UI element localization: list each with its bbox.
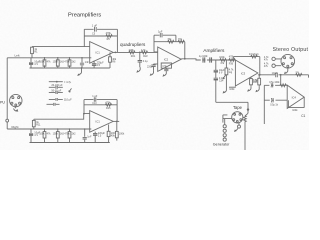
svg-text:0.5µ: 0.5µ (162, 66, 167, 68)
wire IC3 output (258, 74, 309, 76)
svg-text:R35: R35 (253, 82, 258, 84)
capacitor C22 1uF (158, 30, 163, 38)
capacitor C1 electrolytic (29, 58, 41, 68)
resistor R12 (39, 128, 51, 142)
svg-text:IC3: IC3 (241, 71, 246, 75)
J1 cable arrow (14, 109, 18, 112)
jack output R (272, 64, 275, 67)
svg-text:Generator: Generator (213, 142, 230, 146)
resistor R42 zigzag (280, 84, 286, 87)
capacitor C41 series on output line (272, 72, 278, 77)
svg-text:1 µF: 1 µF (92, 24, 98, 28)
capacitor C14 220uF (93, 132, 105, 143)
resistor R14 (64, 128, 76, 142)
op-amp IC2 (158, 47, 182, 71)
wire output IC1a (113, 51, 130, 53)
svg-text:C34: C34 (219, 80, 224, 83)
wire to IC4 lower input (264, 99, 287, 101)
svg-text:100k: 100k (219, 56, 225, 59)
svg-text:4 V: 4 V (34, 62, 38, 66)
junction IC3 output (259, 74, 261, 76)
svg-text:150k: 150k (53, 133, 59, 136)
capacitor C43 series (270, 98, 279, 107)
connector J3 output DIN (281, 54, 295, 68)
resistor R16 under output (107, 125, 117, 143)
svg-text:IC1: IC1 (96, 120, 101, 124)
capacitor C2 (80, 57, 89, 68)
resistor R4 (64, 57, 76, 68)
svg-text:0.5µ 1k: 0.5µ 1k (270, 105, 279, 107)
label jack L (264, 56, 269, 62)
svg-text:4.7k: 4.7k (141, 49, 146, 52)
wire inverting line IC2 (154, 63, 158, 65)
wire right edge stub (308, 75, 310, 78)
capacitor C11 electrolytic (29, 129, 41, 143)
resistor R23 zigzag (167, 38, 174, 43)
ground under P1 (223, 88, 226, 93)
wire inverting input line upper (32, 46, 90, 48)
svg-text:IC1: IC1 (96, 51, 101, 55)
ground under R35 (256, 87, 259, 92)
svg-text:1nF: 1nF (85, 61, 90, 64)
capacitor C21 to ground (138, 52, 148, 67)
legend row cap 4 (47, 103, 60, 106)
jack output L (272, 57, 275, 60)
resistor R15 zigzag (105, 101, 111, 110)
resistor R17 under output node (115, 121, 125, 140)
capacitor C33 electrolytic (214, 60, 225, 77)
svg-text:1 µF: 1 µF (92, 95, 98, 98)
wire output IC1b stub (113, 120, 119, 122)
loop under IC2 (161, 63, 171, 68)
feedback loop IC2: wire (154, 35, 185, 59)
feedback IC4 below: wire (288, 97, 304, 108)
legend arrow (69, 88, 72, 92)
svg-text:Right: Right (12, 125, 19, 129)
svg-text:Amplifiers: Amplifiers (203, 48, 225, 54)
jack generator pin 2 (223, 129, 226, 132)
jack generator pin 1 (223, 125, 226, 128)
ground under R33 (248, 86, 251, 91)
resistor R11 (32, 119, 41, 129)
svg-text:R11: R11 (36, 124, 41, 127)
capacitor C23 to ground (147, 64, 156, 70)
svg-text:220k: 220k (129, 49, 135, 52)
svg-text:2k2: 2k2 (72, 133, 77, 136)
svg-text:quadrupliers: quadrupliers (120, 42, 146, 47)
svg-text:0.1µ: 0.1µ (143, 60, 148, 63)
wire stereo jacks (271, 59, 281, 66)
svg-text:Stereo Output: Stereo Output (273, 47, 309, 53)
wire left input bus (6, 58, 8, 129)
svg-text:PU: PU (0, 101, 5, 105)
label jack R (264, 63, 269, 69)
svg-text:50-30 µF: 50-30 µF (51, 90, 61, 93)
resistor R36 series (229, 56, 235, 65)
svg-text:1nF: 1nF (87, 135, 92, 138)
junction output IC1a (115, 52, 117, 54)
svg-text:100k: 100k (292, 109, 298, 112)
feedback loop upper: wire (84, 29, 117, 52)
wire left channel rail (7, 57, 91, 59)
ground under J3 (285, 68, 288, 73)
op-amp IC1a (90, 42, 114, 64)
svg-text:R21: R21 (131, 55, 136, 58)
svg-text:IC4: IC4 (292, 95, 297, 99)
resistor R31 zigzag (219, 56, 226, 65)
svg-text:470k: 470k (64, 133, 70, 136)
resistor R1 (31, 47, 39, 58)
ground under C24 (163, 71, 166, 76)
legend note block (47, 80, 73, 106)
junction node between R21 R22 (139, 52, 141, 54)
svg-text:= 4.7µ: = 4.7µ (64, 80, 72, 84)
resistor R33 to ground (250, 77, 259, 86)
junction IC2 output (184, 58, 186, 60)
ground arrow upper rail (78, 67, 82, 75)
capacitor C31 series (199, 55, 209, 63)
connector J1 DIN socket (10, 94, 22, 108)
wire IC4 vertical feed (263, 85, 265, 124)
legend row junction (49, 81, 63, 83)
resistor R2 (39, 57, 51, 68)
resistor R6 under output (109, 52, 117, 68)
ground under C23 (150, 70, 153, 75)
capacitor C3 1uF (92, 24, 98, 36)
wire inverting input line lower (34, 114, 90, 120)
svg-text:IC2: IC2 (164, 57, 169, 61)
jack tape pin (247, 108, 249, 110)
resistor R41 zigzag on output line (295, 71, 302, 76)
svg-text:2k2: 2k2 (72, 61, 77, 64)
resistor R21 220k (129, 49, 136, 58)
svg-text:R15: R15 (106, 107, 111, 110)
svg-text:Preamplifiers: Preamplifiers (68, 12, 101, 18)
capacitor C4 220uF (92, 61, 104, 68)
capacitor C32 series (210, 57, 212, 62)
resistor R32 zigzag (249, 53, 259, 58)
svg-text:100k: 100k (39, 133, 45, 136)
capacitor C13 1uF (92, 95, 98, 105)
wire to IC4 upper input (264, 75, 287, 86)
junction output IC1b (116, 121, 118, 123)
svg-text:C1: C1 (301, 114, 305, 118)
svg-text:470k: 470k (64, 61, 70, 64)
feedback IC3: wire (234, 57, 260, 75)
svg-text:47 k(log): 47 k(log) (249, 53, 259, 56)
junction amplifier input node (228, 59, 230, 61)
wire tape left to generator (223, 115, 232, 125)
wire IC1a output to IC2 (130, 51, 158, 53)
resistor R22 4.7k (141, 49, 148, 58)
resistor R24 zigzag (178, 38, 184, 43)
junction output line (280, 74, 282, 76)
svg-text:100k: 100k (119, 132, 125, 135)
connector J2 tape DIN (232, 112, 243, 123)
svg-text:150k: 150k (53, 61, 59, 64)
svg-text:Left: Left (15, 54, 20, 58)
svg-text:470k: 470k (106, 32, 112, 35)
op-amp IC1b (90, 111, 114, 133)
resistor R34 tape load (244, 116, 247, 122)
resistor R3 (53, 57, 65, 68)
wire ground rail upper (30, 67, 110, 69)
svg-text:10µF: 10µF (272, 72, 278, 75)
svg-text:220p: 220p (147, 65, 153, 68)
jack tape monitor pin (235, 123, 241, 131)
capacitor C34 electrolytic (214, 77, 225, 102)
resistor R13 (53, 128, 65, 142)
svg-text:470k: 470k (105, 101, 111, 104)
op-amp IC4 (287, 85, 304, 108)
wire IC2 output to amplifier (181, 59, 235, 60)
junction feedback lower (83, 113, 85, 115)
resistor R5 470k (106, 32, 113, 41)
svg-text:110 µF: 110 µF (64, 97, 72, 101)
svg-text:1µF: 1µF (158, 30, 163, 34)
potentiometer P1 (223, 60, 234, 88)
jack pin on bus (6, 119, 9, 122)
svg-text:1µ 100k: 1µ 100k (199, 55, 209, 58)
op-amp IC3 (235, 60, 258, 86)
wire ground rail lower (30, 142, 110, 144)
wire pot wiper lead (229, 86, 236, 88)
capacitor C12 (83, 128, 92, 142)
legend row cap 3 (49, 98, 63, 101)
svg-text:4 V: 4 V (34, 133, 38, 137)
wire tape feed (216, 102, 248, 150)
jack generator pin 3 (223, 134, 226, 137)
svg-text:0.5µ 100k: 0.5µ 100k (269, 82, 280, 84)
svg-text:C13: C13 (92, 103, 97, 105)
wire right channel rail (7, 128, 91, 130)
svg-text:R36: R36 (229, 63, 234, 65)
capacitor C24 to ground (164, 68, 168, 71)
ground under C21 (137, 67, 140, 72)
svg-text:100k: 100k (229, 88, 235, 91)
jack generator pin 4 (223, 138, 226, 141)
svg-text:Tape: Tape (233, 105, 243, 110)
svg-text:6 V: 6 V (219, 72, 223, 75)
capacitor C42 series (269, 82, 280, 87)
feedback loop lower: wire (84, 100, 117, 122)
svg-text:100k: 100k (39, 61, 45, 64)
resistor R35 to ground (253, 75, 261, 87)
svg-text:R22: R22 (143, 55, 148, 58)
